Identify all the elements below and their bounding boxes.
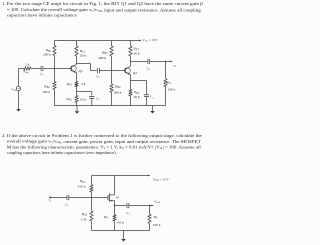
svg-text:10 k: 10 k bbox=[80, 98, 86, 102]
resistor RB3 bbox=[111, 41, 113, 47]
svg-text:C7: C7 bbox=[127, 211, 131, 216]
wire ground rail (circuit 2) bbox=[92, 230, 150, 232]
svg-text:RE1: RE1 bbox=[67, 82, 73, 87]
ground (stage 1) bbox=[76, 106, 78, 112]
svg-text:C2: C2 bbox=[96, 74, 100, 79]
svg-text:180 k: 180 k bbox=[113, 91, 121, 95]
svg-text:vsig: vsig bbox=[11, 87, 16, 92]
svg-text:Rsig: Rsig bbox=[23, 70, 29, 75]
ground (stage 2) bbox=[152, 106, 154, 112]
transistor Q1 bbox=[71, 66, 77, 72]
problem 2 text bbox=[2, 133, 202, 155]
capacitor C1 bbox=[40, 66, 42, 71]
svg-text:capacitors have infinite capac: capacitors have infinite capacitance bbox=[7, 13, 77, 18]
svg-text:RB3: RB3 bbox=[102, 51, 108, 56]
wire C1 to Q1 base bbox=[43, 68, 71, 70]
svg-text:100 k: 100 k bbox=[42, 90, 50, 94]
capacitor C5 bbox=[144, 94, 149, 96]
wire Q1 collector to C2 bbox=[77, 63, 91, 65]
wire vsig to Rsig bbox=[18, 69, 20, 87]
svg-text:VDD = 15 V: VDD = 15 V bbox=[153, 177, 170, 182]
svg-text:910 k: 910 k bbox=[78, 184, 86, 188]
resistor RS bbox=[114, 206, 116, 215]
wire to C3 bbox=[77, 91, 92, 93]
resistor RG2 bbox=[91, 198, 93, 211]
resistor RB2 bbox=[54, 69, 56, 82]
svg-text:C6: C6 bbox=[65, 202, 69, 207]
wire Q2 collector bbox=[130, 62, 132, 67]
svg-text:2 k: 2 k bbox=[25, 63, 30, 67]
resistor RB4 bbox=[111, 71, 113, 85]
svg-text:coupling capacitors have infin: coupling capacitors have infinite capaci… bbox=[7, 150, 117, 155]
wire C6 to gate bbox=[69, 197, 108, 199]
svg-text:1.: 1. bbox=[2, 1, 5, 6]
svg-text:2.: 2. bbox=[2, 133, 5, 138]
svg-text:20 k: 20 k bbox=[134, 95, 140, 99]
wire Q2 collector to C4 bbox=[131, 61, 148, 63]
resistor RE2 (stage 2) bbox=[129, 89, 132, 96]
MOSFET M bbox=[107, 195, 109, 201]
svg-text:250 k: 250 k bbox=[153, 223, 161, 227]
ground (vsig) bbox=[18, 91, 20, 104]
problem 1 text bbox=[2, 1, 204, 18]
svg-text:RB2: RB2 bbox=[44, 84, 50, 89]
svg-text:1 M: 1 M bbox=[81, 217, 88, 221]
wire Rsig-C1 bbox=[31, 68, 41, 70]
svg-text:C1: C1 bbox=[40, 72, 44, 77]
svg-text:RS: RS bbox=[104, 215, 108, 220]
resistor RB1 bbox=[54, 41, 56, 46]
resistor RL2 bbox=[149, 206, 151, 215]
wire VDD top rail bbox=[92, 175, 150, 177]
resistor RE1 bbox=[75, 82, 78, 87]
svg-text:RE2: RE2 bbox=[134, 90, 140, 95]
wire C4 to output node bbox=[150, 61, 171, 63]
ground (circuit 2) bbox=[123, 231, 125, 240]
svg-text:RG2: RG2 bbox=[82, 212, 88, 217]
resistor RG1 bbox=[91, 176, 93, 185]
svg-text:RB4: RB4 bbox=[115, 84, 121, 89]
svg-text:V(o2): V(o2) bbox=[154, 199, 160, 204]
svg-text:vo: vo bbox=[49, 198, 52, 203]
source vsig bbox=[16, 86, 20, 90]
node input terminal bbox=[49, 197, 51, 199]
wire ground rail (circuit 1) bbox=[55, 105, 166, 107]
svg-text:2 k: 2 k bbox=[81, 82, 86, 86]
svg-text:Q2: Q2 bbox=[133, 71, 138, 75]
svg-text:C4: C4 bbox=[147, 66, 151, 71]
wire C2 to Q2 base bbox=[99, 70, 125, 72]
svg-text:300 k: 300 k bbox=[98, 56, 106, 60]
svg-text:C3: C3 bbox=[96, 96, 100, 101]
svg-text:VCC = 15V: VCC = 15V bbox=[142, 38, 158, 43]
svg-text:M: M bbox=[116, 196, 119, 200]
svg-text:C5: C5 bbox=[150, 95, 154, 100]
wire to C5 bbox=[131, 80, 147, 82]
svg-text:RL: RL bbox=[154, 215, 158, 220]
resistor RE2 (stage 1) bbox=[75, 96, 78, 103]
svg-text:4.0 k: 4.0 k bbox=[117, 220, 124, 224]
capacitor C4 bbox=[147, 59, 149, 64]
capacitor C7 bbox=[126, 203, 128, 208]
svg-text:RE2: RE2 bbox=[66, 97, 72, 102]
svg-text:RL: RL bbox=[167, 80, 171, 85]
wire source node bbox=[114, 201, 116, 206]
svg-text:100 k: 100 k bbox=[167, 87, 175, 91]
svg-text:Q1: Q1 bbox=[79, 69, 84, 73]
resistor RC2 bbox=[130, 41, 132, 47]
capacitor C2 bbox=[97, 68, 99, 73]
resistor Rsig bbox=[24, 67, 31, 70]
wire Q2 emitter bbox=[130, 75, 132, 90]
resistor RC1 bbox=[76, 41, 78, 47]
wire Q1 collector bbox=[76, 63, 78, 66]
svg-text:20 k: 20 k bbox=[134, 52, 140, 56]
wire C7 to output bbox=[129, 205, 152, 207]
svg-text:RC2: RC2 bbox=[134, 46, 140, 51]
wire Q1 emitter bbox=[76, 73, 78, 82]
wire VCC top rail bbox=[55, 40, 141, 42]
svg-text:vo: vo bbox=[173, 63, 177, 68]
resistor RL bbox=[165, 62, 167, 79]
svg-text:200 k: 200 k bbox=[43, 53, 51, 57]
capacitor C3 bbox=[89, 96, 94, 98]
wire drain to VDD bbox=[114, 176, 116, 195]
capacitor C6 bbox=[66, 195, 68, 200]
svg-text:RG1: RG1 bbox=[80, 179, 86, 184]
transistor Q2 bbox=[125, 68, 131, 74]
svg-text:20 k: 20 k bbox=[80, 54, 86, 58]
wire input to C6 bbox=[50, 197, 67, 199]
